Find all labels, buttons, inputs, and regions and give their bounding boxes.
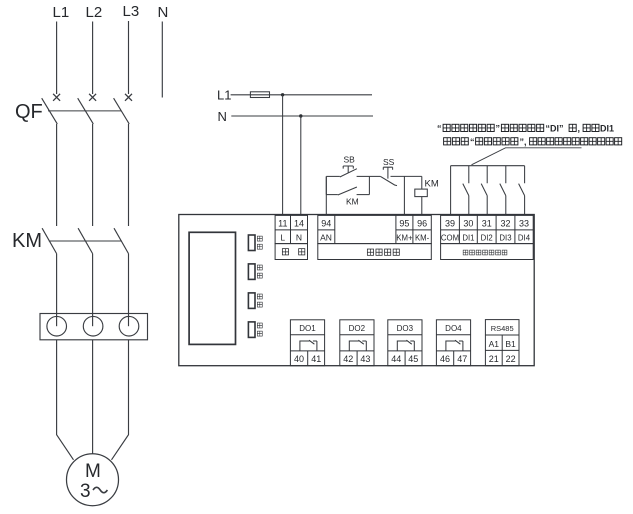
svg-text:L1: L1 [217, 88, 231, 103]
svg-text:46: 46 [440, 354, 450, 364]
svg-text:DI1: DI1 [462, 233, 474, 242]
LED label 4 run [257, 323, 262, 336]
wire parallel branch left [325, 176, 327, 194]
svg-text:L: L [280, 232, 285, 242]
svg-text:DO1: DO1 [299, 324, 316, 333]
current transformer box [40, 314, 148, 340]
svg-text:B1: B1 [505, 339, 516, 349]
strip label control circuit [367, 249, 399, 255]
contactor KM linkage bar [49, 240, 122, 242]
motor M circle [67, 454, 119, 506]
svg-text:44: 44 [391, 354, 401, 364]
device display window [189, 232, 235, 344]
relay DO1 contact symbol [300, 340, 317, 351]
wire to terminal 95 [403, 176, 405, 215]
svg-text:COM: COM [441, 233, 459, 242]
svg-text:M: M [85, 461, 101, 482]
svg-text:33: 33 [519, 218, 529, 228]
svg-text:DI1: DI1 [600, 124, 614, 134]
switch DI3 branch [500, 166, 506, 216]
wire pole1 mid [56, 124, 58, 226]
annotation note line 1 [437, 124, 614, 134]
svg-text:22: 22 [506, 354, 516, 364]
motor tilde [93, 487, 107, 492]
junction dot N/14 [299, 114, 302, 117]
wire N control line [231, 115, 373, 117]
svg-text:DI3: DI3 [499, 233, 511, 242]
terminal strip power label box [275, 244, 307, 260]
wire pole1 to CT [56, 254, 58, 327]
wire L2 drop [92, 22, 94, 95]
svg-text:40: 40 [294, 354, 304, 364]
LED indicator 2 [248, 264, 255, 280]
wire to terminal 11 [282, 95, 284, 216]
terminal strip DI label box [441, 244, 534, 260]
svg-text:42: 42 [343, 354, 353, 364]
pushbutton SB actuator [343, 166, 353, 173]
LED label 1 alarm [257, 236, 262, 249]
CT ring 1 [47, 316, 67, 336]
svg-text:DO3: DO3 [397, 324, 414, 333]
relay output DO2 box [340, 320, 374, 366]
wire to KM coil [421, 176, 423, 189]
svg-text:”: ” [496, 124, 501, 134]
svg-text:RS485: RS485 [491, 324, 514, 333]
wire pole2 mid [92, 124, 94, 226]
wire pole2 to motor [92, 340, 94, 454]
junction dot L1/11 [281, 93, 284, 96]
contactor KM blade pole1 [42, 228, 57, 253]
svg-text:DO4: DO4 [445, 324, 462, 333]
svg-text:L2: L2 [86, 4, 103, 21]
svg-text:KM: KM [346, 197, 359, 207]
wire L3 drop [128, 21, 130, 94]
LED label 3 close [257, 294, 262, 307]
svg-text:“DI”: “DI” [546, 124, 564, 134]
LED indicator 4 [248, 322, 255, 338]
wire SS to coil bus [391, 175, 422, 177]
wire N drop [161, 22, 163, 98]
coil KM [415, 189, 428, 197]
wire KM aux branch right seg [357, 194, 370, 196]
wire L1 drop [56, 22, 58, 95]
terminal strip DI outline [441, 215, 534, 243]
svg-text:14: 14 [294, 218, 304, 228]
svg-text:41: 41 [311, 354, 321, 364]
LED label 2 dip [257, 265, 262, 278]
wire terminal 94 riser [325, 176, 327, 215]
wire pole3 to motor [112, 340, 129, 460]
relay DO2 contact symbol [349, 340, 366, 351]
svg-text:95: 95 [399, 218, 409, 228]
svg-text:30: 30 [463, 218, 473, 228]
svg-text:N: N [218, 109, 227, 124]
svg-text:KM: KM [12, 230, 42, 252]
wire KM aux branch left seg [326, 194, 338, 196]
svg-text:KM-: KM- [415, 233, 430, 242]
svg-text:“: “ [470, 137, 475, 147]
device U1 outline [179, 215, 534, 366]
wire L1 control line [231, 94, 372, 96]
comm port RS485 box [485, 320, 519, 366]
wire SB branch right seg [357, 175, 370, 177]
svg-text:31: 31 [482, 218, 492, 228]
wire pole3 mid [128, 124, 130, 226]
terminal strip control outline [318, 215, 432, 243]
svg-text:N: N [296, 232, 302, 242]
svg-text:45: 45 [408, 354, 418, 364]
relay output DO4 box [436, 320, 470, 366]
breaker QF blade pole3 [114, 98, 130, 124]
relay DO3 contact symbol [397, 340, 414, 351]
LED indicator 3 [248, 293, 255, 309]
breaker QF contact cross 3 [125, 94, 132, 101]
breaker QF blade pole1 [42, 98, 58, 124]
wire DI common bus [451, 165, 525, 167]
CT ring 2 [83, 316, 103, 336]
fuse FU [250, 92, 269, 98]
terminal strip control label box [318, 244, 432, 260]
wire coil to terminal 96 [421, 197, 423, 216]
wire SB branch left seg [326, 175, 340, 177]
LED indicator 1 [248, 235, 255, 251]
svg-text:21: 21 [489, 354, 499, 364]
svg-text:A1: A1 [489, 339, 500, 349]
CT ring 3 [119, 316, 139, 336]
svg-text:DI4: DI4 [518, 233, 531, 242]
svg-text:47: 47 [457, 354, 467, 364]
svg-text:11: 11 [278, 218, 287, 228]
breaker QF linkage bar [48, 110, 122, 112]
svg-text:SS: SS [383, 157, 395, 167]
wire pole3 to CT [128, 254, 130, 327]
svg-text:“: “ [437, 124, 442, 134]
switch DI2 branch [481, 166, 487, 216]
contactor KM blade pole2 [78, 228, 93, 253]
svg-text:KM: KM [425, 179, 439, 190]
svg-text:96: 96 [417, 218, 427, 228]
svg-text:N: N [158, 4, 169, 21]
pushbutton SS actuator [383, 167, 392, 178]
wire pole1 to motor [57, 340, 74, 460]
svg-text:KM+: KM+ [396, 233, 413, 242]
switch DI1 branch [463, 166, 469, 216]
svg-text:QF: QF [15, 101, 43, 123]
breaker QF contact cross 1 [53, 94, 60, 101]
svg-text:,: , [578, 124, 581, 134]
annotation note line 2 [444, 137, 622, 147]
svg-text:AN: AN [320, 232, 332, 242]
strip label switching signal input [463, 250, 507, 255]
svg-text:43: 43 [360, 354, 370, 364]
wire to terminal 14 [300, 116, 302, 216]
contactor KM blade pole3 [114, 228, 129, 253]
pushbutton SS blade [380, 176, 397, 185]
svg-text:94: 94 [321, 218, 331, 228]
breaker QF contact cross 2 [89, 94, 96, 101]
svg-text:L1: L1 [53, 4, 70, 21]
wire to SS [369, 175, 380, 177]
svg-text:DO2: DO2 [349, 324, 366, 333]
svg-text:L3: L3 [123, 3, 140, 20]
wire to terminal 39 COM [450, 166, 452, 216]
svg-text:SB: SB [344, 155, 356, 165]
svg-text:39: 39 [445, 218, 455, 228]
relay output DO3 box [388, 320, 422, 366]
wire parallel branch right [368, 176, 370, 194]
relay DO4 contact symbol [446, 340, 463, 351]
svg-text:3: 3 [80, 481, 91, 502]
svg-text:DI2: DI2 [481, 233, 493, 242]
terminal strip power outline [275, 215, 307, 243]
switch DI4 branch [519, 166, 525, 216]
contact KM auxiliary blade [338, 187, 357, 195]
svg-text:”,: ”, [520, 137, 527, 147]
pushbutton SB blade [340, 169, 357, 177]
wire pole2 to CT [92, 254, 94, 327]
annotation leader line [472, 148, 582, 165]
svg-text:32: 32 [500, 218, 510, 228]
breaker QF blade pole2 [78, 98, 94, 124]
strip label power [282, 249, 304, 255]
relay output DO1 box [290, 320, 324, 366]
